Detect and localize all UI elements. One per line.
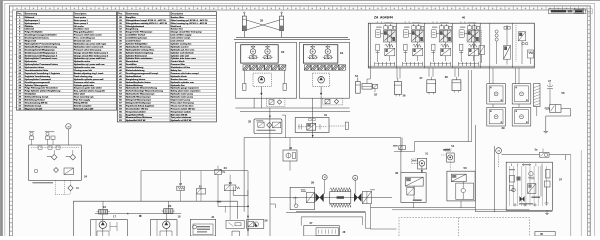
- svg-text:Hydraulic control: Hydraulic control: [171, 45, 189, 48]
- scan edge top strip: [0, 0, 600, 2]
- cylinder 35 left: [242, 12, 246, 31]
- pump 34 outlet arrow: [320, 87, 322, 95]
- svg-text:Cylinder tube lower case: Cylinder tube lower case: [171, 57, 197, 60]
- filter diamond 24 right: [70, 154, 76, 160]
- check valve right of radiator: [354, 193, 362, 202]
- wire drop 475: [474, 125, 476, 212]
- svg-text:Valve plate: Valve plate: [74, 93, 86, 96]
- svg-text:Hydrozylinder Leitung Vent.: Hydrozylinder Leitung Vent.: [126, 48, 155, 51]
- wire under 57: [475, 211, 552, 213]
- svg-text:ZA AG43/44: ZA AG43/44: [374, 16, 393, 20]
- svg-text:Hydraulics valve control unit: Hydraulics valve control unit: [74, 45, 104, 48]
- valve block 33: [241, 45, 279, 63]
- svg-text:Pressure filter: Pressure filter: [171, 63, 186, 66]
- valve plate 39 bottom-right: [512, 107, 531, 126]
- wire 468 pair: [467, 70, 469, 142]
- svg-text:Hydraulic line: Hydraulic line: [171, 85, 186, 87]
- valve section 40-2: [403, 22, 424, 66]
- svg-text:Papierkorb Verstellring f. Zug: Papierkorb Verstellring f. Zugleiste: [25, 72, 61, 75]
- relief section 40-7: [516, 25, 534, 64]
- svg-text:34: 34: [340, 51, 344, 55]
- svg-text:Pressure relief valve cooler: Pressure relief valve cooler: [74, 35, 102, 37]
- svg-text:Hydraulic block: Hydraulic block: [171, 76, 188, 78]
- svg-text:Hydraulic cyl. line vent.: Hydraulic cyl. line vent.: [171, 48, 195, 51]
- check valve left of radiator: [316, 193, 324, 202]
- collector wire mid: [244, 137, 401, 139]
- svg-text:Hydromotor hinten: Hydromotor hinten: [25, 66, 45, 69]
- svg-text:Hydrozylinder Presswandregelun: Hydrozylinder Presswandregelung: [25, 43, 61, 45]
- pump 34 circle: [318, 77, 325, 84]
- wire 47 junction: [536, 107, 538, 117]
- svg-text:Magnetventil 24V: Magnetventil 24V: [25, 107, 43, 110]
- svg-text:Saugleitung hinten: Saugleitung hinten: [126, 78, 146, 81]
- parts table header row: [17, 15, 117, 17]
- pump box 16/17: [91, 220, 128, 236]
- oil tank unit 21: [190, 219, 215, 236]
- svg-text:31: 31: [324, 113, 328, 117]
- wire through block 32: [269, 108, 271, 138]
- svg-text:Zylinder Führungsrohr: Zylinder Führungsrohr: [25, 85, 48, 87]
- wire drop from 22 to bus: [195, 194, 197, 201]
- svg-text:Flüssigkeitsstand: Flüssigkeitsstand: [126, 25, 145, 28]
- svg-text:Papierkorb Schub Zugleiste: Papierkorb Schub Zugleiste: [126, 104, 155, 107]
- svg-text:Front probe: Front probe: [74, 16, 87, 19]
- wire 33 to trunk: [253, 98, 255, 108]
- svg-text:23: 23: [224, 166, 228, 170]
- svg-text:Saugleitung: Saugleitung: [126, 28, 139, 31]
- parts table rows: [117, 19, 216, 119]
- svg-text:Rotor pump 2: Rotor pump 2: [74, 22, 89, 25]
- restrictor 47 mid: [177, 171, 185, 202]
- svg-text:Hydraulische Wasserpumpe: Hydraulische Wasserpumpe: [126, 94, 155, 96]
- svg-text:36: 36: [403, 93, 406, 97]
- svg-text:Hydraulic motor rear: Hydraulic motor rear: [74, 66, 95, 69]
- pump block 29: [290, 187, 314, 209]
- svg-text:Hose assembly cpl.: Hose assembly cpl.: [74, 97, 94, 99]
- fan motor 16: [97, 210, 110, 215]
- svg-text:Thrust rod of bin drive: Thrust rod of bin drive: [171, 104, 195, 107]
- svg-text:Directional valve: Directional valve: [74, 40, 92, 43]
- svg-text:Seal kit complete: Seal kit complete: [74, 104, 92, 107]
- valve block 34: [303, 45, 337, 63]
- right ruler tick marks: [588, 12, 591, 236]
- svg-text:52: 52: [374, 93, 377, 97]
- pump 17 circle: [99, 214, 106, 236]
- svg-text:Suction filter: Suction filter: [171, 16, 184, 19]
- svg-text:Lecköl Vorlauf: Lecköl Vorlauf: [126, 41, 141, 43]
- wire drop x141: [140, 171, 142, 202]
- trunk wire through 26: [247, 171, 249, 236]
- breather diamond 41: [68, 185, 73, 190]
- gauge circle 24 right: [353, 175, 358, 180]
- svg-text:Charge circuit filter brake pu: Charge circuit filter brake pump 1: [74, 51, 109, 54]
- drain valve 33 dashed box: [267, 98, 285, 106]
- svg-text:Folge Zylinder platten Ringfüh: Folge Zylinder platten Ringführung: [25, 90, 61, 93]
- svg-text:Zugleiste Verschlussring: Zugleiste Verschlussring: [25, 75, 51, 78]
- pilot section 40-6: [495, 25, 511, 65]
- valve block 31: [295, 118, 329, 133]
- valve block 32: [254, 119, 282, 134]
- tank hatch bar 33: [243, 65, 286, 70]
- wire right margin drop: [570, 155, 572, 236]
- wires to cylinder 37: [428, 68, 430, 77]
- wire drop trunk B: [269, 138, 271, 236]
- svg-text:Seq. cylinder plates ring guid: Seq. cylinder plates ring guide: [74, 90, 106, 93]
- svg-text:Temperaturschalter: Temperaturschalter: [126, 110, 146, 113]
- svg-text:Ventilplatte: Ventilplatte: [25, 93, 37, 96]
- label Thermostatventil: [33, 182, 54, 183]
- svg-text:Zylinder Rohr unterkasten: Zylinder Rohr unterkasten: [126, 57, 153, 60]
- wire drop right end: [237, 201, 239, 219]
- wire 58 to tank: [546, 109, 571, 132]
- wires to cylinder 38: [454, 68, 456, 77]
- svg-text:Hydraulic cylinder rear: Hydraulic cylinder rear: [171, 82, 194, 84]
- svg-text:Senkbremsventil Wegepumpe 1: Senkbremsventil Wegepumpe 1: [25, 51, 58, 54]
- svg-text:Zylinder Kühlgebläse: Zylinder Kühlgebläse: [126, 43, 148, 45]
- pump 33 circle: [258, 77, 265, 84]
- wire valve 23 down: [217, 175, 219, 207]
- valve block 40 body: [368, 23, 534, 68]
- svg-text:Cylinder cooling fan: Cylinder cooling fan: [171, 43, 192, 45]
- valve block 40 top port stubs: [377, 21, 465, 23]
- svg-text:35: 35: [260, 18, 264, 22]
- svg-text:Drängend Wasserpumpe: Drängend Wasserpumpe: [126, 100, 152, 102]
- valve box 26: [247, 220, 264, 229]
- svg-text:Fluid level: Fluid level: [171, 26, 182, 28]
- wire 53 down: [460, 201, 462, 208]
- svg-text:Track closing ring: Track closing ring: [74, 76, 93, 78]
- relief section 40 right: [474, 23, 512, 68]
- svg-text:Description: Description: [171, 13, 184, 16]
- junction mark: [139, 215, 141, 217]
- valve cluster 33 right: [262, 45, 272, 59]
- svg-text:Pressure valve drive pump: Pressure valve drive pump: [74, 49, 102, 51]
- svg-text:Cylinder guide tube: Cylinder guide tube: [74, 84, 95, 87]
- svg-text:Dichtsatz kompl.: Dichtsatz kompl.: [25, 104, 42, 107]
- svg-text:Druckregelventil autom.: Druckregelventil autom.: [25, 37, 50, 40]
- pump group 33 outer enclosure: [235, 42, 296, 98]
- svg-text:Senkbremsventil Wegepumpe 2: Senkbremsventil Wegepumpe 2: [25, 54, 58, 57]
- svg-text:Lüfterrad: Lüfterrad: [25, 28, 35, 31]
- svg-text:Sicherheitsleitung: Sicherheitsleitung: [126, 69, 145, 72]
- svg-text:Rotor pump 1: Rotor pump 1: [74, 19, 89, 22]
- valve 5a: [540, 149, 550, 158]
- left ruler letters: [10, 16, 11, 232]
- svg-text:24: 24: [84, 175, 88, 179]
- cross lines item 35: [246, 20, 279, 30]
- wire 42 vertical: [289, 138, 291, 150]
- svg-text:29: 29: [311, 180, 315, 184]
- valve plate 39 bottom-left: [487, 107, 506, 126]
- cylinder 37: [427, 77, 436, 95]
- svg-text:Hydrozylinder Presswand vorne: Hydrozylinder Presswand vorne: [25, 58, 58, 60]
- fan motor 20: [162, 209, 175, 214]
- wires block 40 to plates 39: [489, 68, 491, 84]
- svg-text:30: 30: [395, 171, 399, 175]
- svg-text:Description: Description: [74, 13, 87, 16]
- pump 33 outlet arrow: [260, 87, 262, 95]
- aux box left of 26: [226, 220, 244, 228]
- valve 23: [215, 166, 225, 175]
- svg-text:Sequence guide tube slider: Sequence guide tube slider: [74, 87, 102, 90]
- pressure gauge pair a: [29, 131, 35, 145]
- wire drop to motor 20: [167, 201, 169, 209]
- parts table frame: [17, 12, 117, 111]
- svg-text:Saugverteiler Filterpumpe: Saugverteiler Filterpumpe: [126, 31, 153, 34]
- unload valve section 40-5: [479, 30, 485, 63]
- pendant valve right of 31: [345, 122, 348, 129]
- svg-text:Filtergehäuse mächtig BY16 L1: Filtergehäuse mächtig BY16 L1 - APC 50: [126, 22, 168, 25]
- svg-text:Leckölleitung kompl.: Leckölleitung kompl.: [126, 37, 148, 40]
- svg-text:Drängventil Ventilpumpe: Drängventil Ventilpumpe: [126, 101, 152, 104]
- svg-text:Filter housing lrg. BY16 L1 -: Filter housing lrg. BY16 L1 - APC 50: [171, 22, 208, 25]
- collector drop to block 30: [400, 138, 402, 173]
- cooler loop wire: [270, 197, 392, 199]
- bypass valve right: [362, 191, 371, 203]
- svg-text:Hydraulics cyl. press wall reg: Hydraulics cyl. press wall regul.: [74, 43, 107, 45]
- wire drop left collector: [243, 138, 245, 212]
- pump 19 circle: [163, 214, 170, 237]
- wires to cylinder 36: [396, 68, 398, 79]
- valve 58: [545, 105, 562, 113]
- svg-text:Leckölfilter Vorlauf: Leckölfilter Vorlauf: [126, 34, 146, 37]
- block 53: [447, 171, 475, 201]
- gauge circle 74 left: [66, 124, 71, 129]
- valve section 40-3: [431, 22, 452, 66]
- svg-text:39: 39: [501, 126, 505, 130]
- svg-text:Suction line: Suction line: [171, 28, 184, 31]
- svg-text:Solenoid valve 24V: Solenoid valve 24V: [74, 107, 94, 110]
- svg-text:Flap guiding platen: Flap guiding platen: [74, 31, 94, 34]
- pressure gauge pair b: [45, 131, 55, 145]
- svg-text:Druckbegrenzungsventil kompl.: Druckbegrenzungsventil kompl.: [126, 72, 159, 75]
- cylinder 36: [394, 79, 401, 97]
- drain valve 34 dashed box: [323, 98, 343, 105]
- svg-text:Filtergehäuse kompl. BY16 L1 -: Filtergehäuse kompl. BY16 L1 - APC 16: [126, 19, 167, 22]
- valve block 40 section dividers: [396, 23, 398, 68]
- port fitting 33 right: [283, 83, 286, 90]
- cylinder outline bottom box 20: [160, 231, 172, 236]
- svg-text:Hydrozylinder Presswand: Hydrozylinder Presswand: [25, 79, 52, 81]
- valve plate 39 top-right: [512, 84, 531, 104]
- pump 51 unit: [412, 158, 427, 172]
- valve 22: [196, 171, 205, 202]
- svg-text:Hydraulik-Wegeventilsteuerung: Hydraulik-Wegeventilsteuerung: [25, 45, 58, 48]
- wire motors link: [95, 213, 181, 215]
- svg-text:25: 25: [229, 181, 233, 185]
- tank symbol below 57: [546, 210, 548, 213]
- svg-text:Distribution oil line: Distribution oil line: [171, 66, 191, 69]
- cylinder outline bottom box 16: [97, 231, 109, 236]
- tank unit block 24: [29, 145, 82, 180]
- svg-text:Hydraulic water pump: Hydraulic water pump: [171, 96, 194, 99]
- valve section 40-4: [458, 22, 479, 66]
- svg-text:Druckregelventil Wegepumpe: Druckregelventil Wegepumpe: [25, 48, 56, 51]
- svg-text:Hydromotor: Hydromotor: [25, 60, 37, 63]
- svg-text:37: 37: [420, 76, 423, 80]
- svg-text:Control block: Control block: [171, 60, 186, 63]
- svg-text:Hydrauliköl HLP 46: Hydrauliköl HLP 46: [126, 119, 146, 122]
- wire right of 32: [282, 115, 286, 138]
- svg-text:20: 20: [168, 204, 171, 208]
- wire left of 57: [494, 146, 496, 212]
- svg-text:Cylinder side wall: Cylinder side wall: [171, 55, 189, 57]
- svg-text:Ball valve DN 25: Ball valve DN 25: [171, 114, 188, 116]
- svg-text:Benennung: Benennung: [25, 14, 38, 16]
- stub x225: [224, 206, 226, 212]
- svg-text:Leak oil line compl.: Leak oil line compl.: [171, 38, 191, 40]
- labels 46: [301, 189, 306, 190]
- svg-text:Hydraulische Messeinrichtung: Hydraulische Messeinrichtung: [126, 87, 158, 90]
- top ruler tick marks: [13, 6, 587, 10]
- wire y206 to trunk: [218, 205, 248, 207]
- svg-text:Hydraulikblock: Hydraulikblock: [126, 76, 142, 78]
- filter block 42: [283, 150, 297, 161]
- svg-text:Temperature switch: Temperature switch: [171, 110, 192, 113]
- svg-text:Hydropumpe 1: Hydropumpe 1: [25, 20, 41, 22]
- svg-text:Hydraulikzylinder hinten: Hydraulikzylinder hinten: [126, 81, 152, 84]
- svg-text:27: 27: [310, 221, 313, 225]
- gauge circle above 29: [322, 175, 327, 180]
- svg-text:Pressure switch 180 bar: Pressure switch 180 bar: [171, 107, 196, 110]
- frame right inner vertical: [580, 150, 582, 236]
- svg-text:24: 24: [354, 177, 356, 180]
- svg-text:Ventilator vane: Ventilator vane: [74, 28, 90, 31]
- valve plate 39 top-left: [487, 84, 506, 104]
- svg-text:38: 38: [445, 75, 448, 79]
- dashed drain wires 24: [54, 180, 56, 194]
- svg-text:53: 53: [463, 166, 467, 170]
- svg-text:Charge circuit filter brake pu: Charge circuit filter brake pump 2: [74, 54, 109, 57]
- filter diamond 24 left: [51, 154, 57, 160]
- pump unit 08: [535, 232, 555, 237]
- wire 35 left stem: [243, 31, 245, 38]
- jog wire above 27: [270, 204, 275, 208]
- trunk wire under pump groups: [235, 107, 349, 109]
- svg-text:Folge Führungsrohr Verschieber: Folge Führungsrohr Verschieber: [25, 88, 58, 90]
- svg-text:Druckbegrenzungsventil: Druckbegrenzungsventil: [25, 81, 50, 84]
- svg-text:Closing cover left: Closing cover left: [74, 69, 92, 72]
- svg-text:Verschlussdeckel links: Verschlussdeckel links: [25, 70, 49, 72]
- svg-text:Rohrleitung Vorlauf: Rohrleitung Vorlauf: [25, 99, 45, 102]
- bottom enclosure left edge: [72, 201, 74, 236]
- valve cluster 34 left: [308, 45, 318, 59]
- power unit 57 extra marks: [519, 203, 533, 204]
- svg-text:Zylinder Dachverriegelung: Zylinder Dachverriegelung: [126, 52, 154, 54]
- wire 74 to valve 5a: [502, 154, 540, 156]
- pump group 34 outer enclosure: [299, 42, 349, 98]
- svg-text:Safety line: Safety line: [171, 69, 183, 72]
- pump 34 dashed box: [313, 73, 330, 86]
- svg-text:Press valve feed pump: Press valve feed pump: [171, 102, 195, 104]
- bottom bus wire long: [73, 200, 237, 202]
- top ruler numbers: [16, 8, 583, 9]
- cooler bottom wire: [286, 211, 365, 213]
- svg-text:Druckschalter 180 bar: Druckschalter 180 bar: [126, 107, 149, 110]
- wire 43 to pump lines: [401, 150, 403, 152]
- valve 25: [225, 175, 240, 221]
- hydraulic power unit 57: [506, 162, 552, 210]
- svg-text:16: 16: [103, 205, 106, 209]
- svg-text:Pos.: Pos.: [17, 14, 22, 16]
- right ruler letters: [588, 16, 589, 232]
- svg-text:Druckfilter: Druckfilter: [126, 63, 137, 66]
- table left bracket ticks: [15, 19, 17, 108]
- svg-text:74: 74: [324, 176, 326, 179]
- svg-text:Hydraulic gauge equipment: Hydraulic gauge equipment: [171, 87, 199, 90]
- trunk wire under pump groups second: [240, 111, 350, 113]
- svg-text:Urgent water pump: Urgent water pump: [171, 99, 191, 102]
- svg-text:Basket adjusting ring f. track: Basket adjusting ring f. track: [74, 72, 104, 75]
- parts table row texts: [119, 16, 208, 122]
- svg-text:42: 42: [289, 146, 293, 150]
- svg-text:Kugelhahn DN 25: Kugelhahn DN 25: [126, 114, 145, 116]
- port fitting 33 left: [243, 83, 246, 90]
- svg-text:57: 57: [559, 177, 563, 181]
- svg-text:21: 21: [212, 215, 215, 219]
- svg-text:Ölkühler: Ölkühler: [25, 25, 34, 28]
- svg-text:Charge circuit filter feed pum: Charge circuit filter feed pump: [171, 31, 203, 34]
- wire drop to motor 16: [102, 201, 104, 209]
- box below valve 25: [233, 187, 248, 196]
- svg-text:Suction line rear: Suction line rear: [171, 78, 188, 81]
- micro label 4a: [217, 201, 221, 203]
- svg-text:Pres. controlling aut.: Pres. controlling aut.: [74, 37, 96, 40]
- svg-text:Hydrozylinder Presswand hinten: Hydrozylinder Presswand hinten: [25, 63, 59, 66]
- svg-text:Druckbegrenzungsventil kühler: Druckbegrenzungsventil kühler: [25, 34, 57, 37]
- left ruler tick marks: [9, 12, 12, 236]
- wire through block 31: [312, 108, 314, 138]
- parts table frame: [117, 12, 216, 122]
- svg-text:Hydraulic oil HLP 46: Hydraulic oil HLP 46: [171, 119, 192, 122]
- bottom bus wires: [371, 207, 476, 209]
- accumulator 47 hatched: [534, 84, 540, 107]
- return dashed enclosure: [399, 218, 530, 237]
- svg-text:Safety plant water separation: Safety plant water separation: [171, 90, 201, 93]
- svg-text:Saugfilter: Saugfilter: [126, 16, 136, 19]
- svg-text:54: 54: [355, 74, 358, 78]
- svg-text:Hydropumpe 2: Hydropumpe 2: [25, 23, 41, 25]
- svg-text:32: 32: [248, 120, 252, 124]
- svg-text:Pressure relief valve compl.: Pressure relief valve compl.: [171, 73, 200, 75]
- svg-text:Test point minimess: Test point minimess: [171, 116, 192, 119]
- svg-text:Zylinder Seitenwand: Zylinder Seitenwand: [126, 54, 148, 57]
- dashed link 74 to 57: [498, 162, 500, 168]
- wire 35 right stem: [281, 31, 283, 38]
- valve cluster 34 right: [323, 45, 333, 59]
- svg-text:Verschraubung SW 24: Verschraubung SW 24: [25, 101, 48, 104]
- supply wire pair top: [236, 36, 348, 38]
- svg-text:Sicherheitsanlage Wasserabsetz: Sicherheitsanlage Wasserabsetzung: [126, 90, 164, 93]
- scan edge left strip: [0, 0, 2, 236]
- svg-text:Pos.: Pos.: [118, 14, 123, 16]
- svg-text:26: 26: [265, 219, 268, 223]
- svg-text:Verteilerölleitung: Verteilerölleitung: [126, 66, 144, 69]
- pump 33 dashed box: [253, 73, 272, 86]
- parts table rows: [17, 19, 117, 108]
- svg-text:Hydraulikleitung: Hydraulikleitung: [126, 84, 143, 87]
- tank hatch bar 34: [304, 65, 346, 70]
- svg-text:Schlauchleitung kompl.: Schlauchleitung kompl.: [25, 96, 49, 99]
- svg-text:Hydraulische Steuerung: Hydraulische Steuerung: [126, 45, 151, 48]
- svg-text:Hydraulic cylinder press wall: Hydraulic cylinder press wall: [74, 79, 104, 81]
- pump box 20/18: [150, 220, 177, 236]
- svg-text:Steuerblock: Steuerblock: [126, 60, 139, 63]
- svg-text:Leak oil filter supply: Leak oil filter supply: [171, 34, 193, 37]
- svg-text:Hydraulic water pump: Hydraulic water pump: [171, 93, 194, 96]
- aux box bottom left: [232, 231, 240, 236]
- svg-text:Füllstand: Füllstand: [25, 16, 35, 19]
